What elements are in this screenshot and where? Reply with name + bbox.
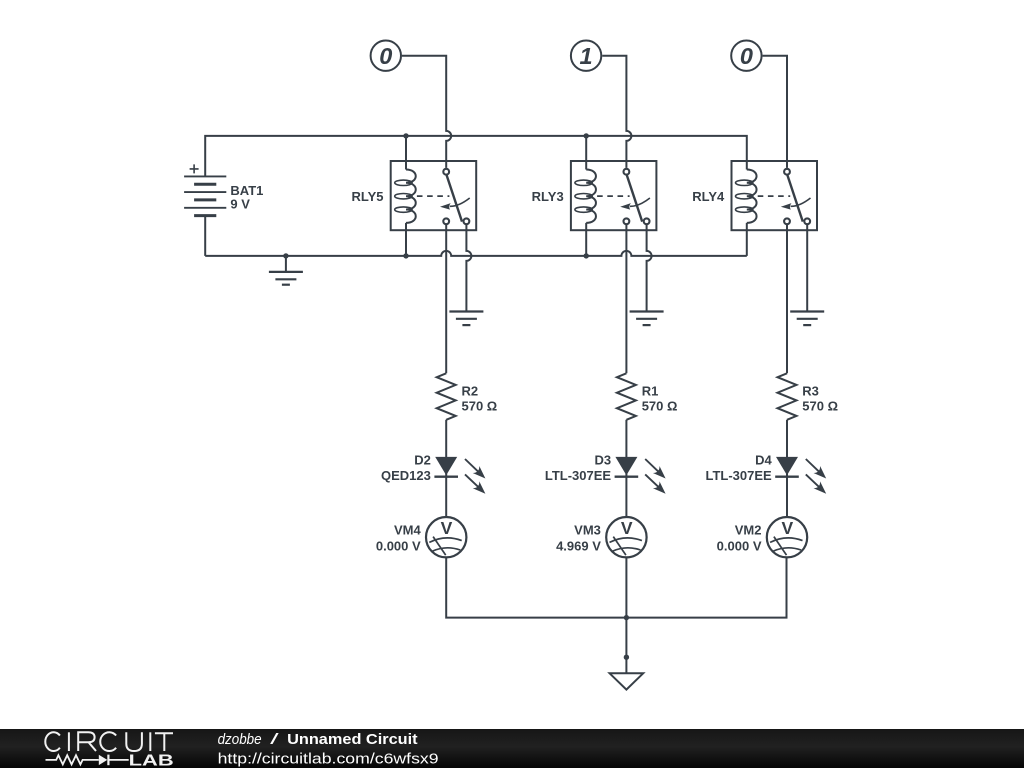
svg-text:LTL-307EE: LTL-307EE [705,468,772,483]
CircuitLab logo resistor-diode glyph [46,755,99,764]
svg-text:LAB: LAB [129,753,174,768]
svg-text:0: 0 [379,43,392,69]
wire from relay NO contact to ground (column A) [466,224,471,311]
resistor R2 570 ohm [437,373,498,420]
wire from pin to relay switch (column A) [402,56,451,168]
wire from voltmeters to bottom node [446,557,786,617]
svg-text:V: V [781,518,793,538]
wire from pin to relay switch (column B) [602,56,631,168]
node junction above ground triangle [624,655,629,660]
svg-text:D4: D4 [755,453,772,468]
battery BAT1 [184,164,263,256]
svg-text:http://circuitlab.com/c6wfsx9: http://circuitlab.com/c6wfsx9 [218,751,439,767]
wire from pin to relay switch (column C) [763,56,787,168]
svg-text:V: V [441,518,453,538]
ground (battery negative) [269,253,303,285]
resistor R1 570 ohm [617,373,678,420]
svg-text:0.000 V: 0.000 V [376,539,421,554]
voltmeter VM4 [376,517,467,557]
ground (relay NO contact, column C) [790,312,824,326]
svg-text:0.000 V: 0.000 V [717,539,762,554]
wire from resistor through LED to voltmeter (column A) [445,420,447,517]
svg-text:D3: D3 [594,453,611,468]
ground (relay NO contact, column A) [449,312,483,326]
resistor R3 570 ohm [778,373,839,420]
digital input pin "0" (column C) [731,41,761,71]
voltmeter VM3 [556,517,647,557]
svg-text:RLY4: RLY4 [692,189,725,204]
relay RLY4 [692,161,817,256]
voltmeter VM2 [717,517,808,557]
svg-text:VM2: VM2 [735,522,762,537]
svg-text:R2: R2 [462,383,479,398]
svg-text:R3: R3 [802,383,819,398]
wire top bus from battery to relay coils [205,136,747,177]
svg-text:4.969 V: 4.969 V [556,539,601,554]
svg-text:D2: D2 [414,453,431,468]
wire from resistor through LED to voltmeter (column B) [625,420,627,517]
wire from relay common contact to resistor (column A) [445,224,447,373]
LED D3 LTL-307EE [545,453,666,494]
svg-text:V: V [621,518,633,538]
LED D4 LTL-307EE [705,453,826,494]
svg-text:9 V: 9 V [230,197,250,212]
node junction on bottom wire [624,615,629,620]
ground (relay NO contact, column B) [630,312,664,326]
svg-text:0: 0 [740,43,753,69]
svg-text:1: 1 [580,43,593,69]
svg-text:QED123: QED123 [381,468,431,483]
svg-text:RLY5: RLY5 [351,189,383,204]
wire bottom bus (battery negative rail) with hops [205,251,747,256]
wire from resistor through LED to voltmeter (column C) [786,420,788,517]
digital input pin "1" (column B) [571,41,601,71]
svg-text:VM4: VM4 [394,522,422,537]
wire from relay NO contact to ground (column B) [647,224,652,311]
ground (signal ground triangle) [610,673,644,689]
svg-text:R1: R1 [642,383,659,398]
svg-text:dzobbe / Unnamed Circuit: dzobbe / Unnamed Circuit [218,732,418,748]
svg-text:570 Ω: 570 Ω [802,399,838,414]
svg-text:570 Ω: 570 Ω [642,399,678,414]
wire from relay NO contact to ground (column C) [806,224,808,311]
relay RLY3 [532,133,657,258]
svg-text:LTL-307EE: LTL-307EE [545,468,612,483]
relay RLY5 [351,133,476,258]
wire from relay common contact to resistor (column C) [786,224,788,373]
wire from relay common contact to resistor (column B) [625,224,627,373]
CircuitLab logo "CIRCUIT" [45,732,173,751]
LED D2 QED123 [381,453,485,494]
svg-text:RLY3: RLY3 [532,189,564,204]
svg-text:570 Ω: 570 Ω [462,399,498,414]
svg-text:VM3: VM3 [574,522,601,537]
digital input pin "0" (column A) [371,41,401,71]
